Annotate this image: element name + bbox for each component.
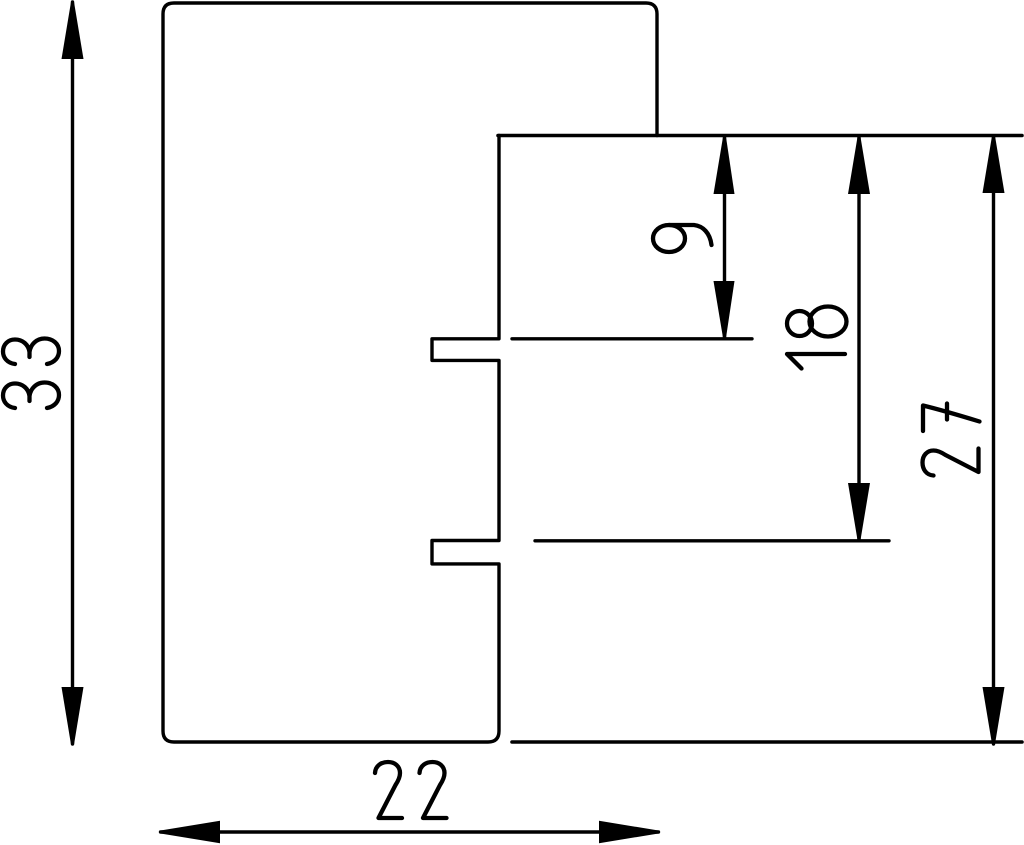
text 9 (rotated) (653, 225, 712, 252)
profile body outline (163, 3, 657, 742)
arrowhead 9 down (714, 281, 735, 338)
arrowhead 33 up (62, 2, 84, 59)
arrowhead 9 up (714, 137, 735, 194)
dimension line 9 (723, 137, 726, 338)
arrowhead 22 left (161, 821, 221, 843)
dimension line 18 (857, 137, 860, 540)
dimension line 22 (161, 830, 659, 833)
dimension line 27 (992, 136, 995, 744)
dimension line 33 (71, 2, 74, 744)
text 33 (rotated) (3, 339, 59, 409)
text 27 (rotated) (923, 404, 980, 476)
text 22 (375, 762, 447, 818)
bottom shelf line (512, 740, 1022, 744)
text 18 (rotated) (787, 307, 847, 369)
arrowhead 18 up (848, 137, 870, 194)
arrowhead 18 down (848, 483, 870, 540)
arrowhead 27 up (983, 136, 1005, 193)
arrowhead 33 down (62, 687, 84, 745)
arrowhead 22 right (599, 821, 659, 843)
extension line for 18 (535, 539, 889, 542)
extension line for 9 (512, 337, 752, 340)
top shelf line (498, 134, 1022, 138)
arrowhead 27 down (983, 687, 1005, 744)
